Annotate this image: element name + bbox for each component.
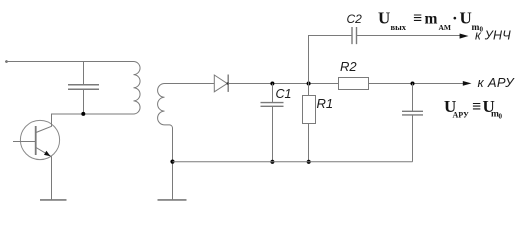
- capacitor C3 AGC top lead: [412, 84, 414, 112]
- svg-text:0: 0: [499, 113, 503, 121]
- transistor VT1 emitter lead: [36, 148, 52, 200]
- node C1 top junction: [270, 82, 274, 86]
- ground transistor emitter: [40, 199, 67, 201]
- inductor L2 secondary coil: [158, 84, 173, 200]
- formula U_vyh = m_AM * U_m0: [378, 9, 484, 34]
- capacitor C3 AGC bottom lead: [412, 115, 414, 162]
- capacitor C2 plates: [352, 27, 357, 44]
- node diode cathode: [227, 82, 229, 84]
- svg-text:к АРУ: к АРУ: [478, 75, 516, 90]
- svg-text:0: 0: [480, 26, 484, 34]
- capacitor C1 top lead: [272, 84, 274, 103]
- node R1 bottom junction: [307, 160, 311, 164]
- svg-text:m: m: [425, 11, 438, 28]
- resistor R1 top lead: [308, 84, 310, 96]
- formula U_ARU = U_m0: [444, 97, 503, 121]
- svg-text:вых: вых: [391, 22, 407, 32]
- capacitor C1 plates: [261, 103, 284, 107]
- inductor L1 primary coil: [134, 62, 141, 114]
- capacitor tank plates: [68, 85, 99, 90]
- capacitor C3 AGC plates: [402, 111, 423, 115]
- capacitor tank bottom lead: [83, 90, 85, 114]
- wire C2 to UNCh arrow: [357, 35, 461, 37]
- wire diode to R2: [228, 83, 338, 85]
- wire antenna to tank top: [6, 61, 134, 63]
- node collector junction: [81, 112, 85, 116]
- svg-text:R1: R1: [317, 96, 334, 111]
- wire tank bottom to collector: [52, 113, 134, 115]
- capacitor C1 bottom lead: [272, 107, 274, 162]
- svg-text:АРУ: АРУ: [453, 111, 469, 120]
- svg-text:C2: C2: [347, 12, 363, 26]
- node R1 top junction: [307, 82, 311, 86]
- node C1 bottom junction: [270, 160, 274, 164]
- wire base lead: [13, 141, 36, 143]
- svg-text:C1: C1: [276, 87, 292, 101]
- transistor VT1 emitter arrow: [44, 151, 51, 157]
- svg-text:U: U: [460, 9, 472, 28]
- arrow to UNCh: [460, 34, 469, 39]
- wire bottom bus: [173, 161, 413, 163]
- transistor VT1 body circle: [20, 120, 59, 159]
- node AGC capacitor junction: [411, 82, 415, 86]
- node secondary bottom junction: [170, 160, 174, 164]
- resistor R1 body: [303, 96, 316, 124]
- svg-text:m: m: [472, 23, 480, 33]
- resistor R2 body: [339, 78, 369, 90]
- diode VD1 triangle: [214, 75, 227, 92]
- transistor VT1 collector lead: [36, 114, 52, 133]
- wire secondary to diode: [165, 83, 215, 85]
- capacitor tank top lead: [83, 62, 85, 85]
- svg-text:≡: ≡: [413, 10, 422, 27]
- svg-text:≡: ≡: [472, 98, 481, 115]
- wire R1 node up to C2: [309, 36, 352, 84]
- resistor R1 bottom lead: [308, 124, 310, 162]
- wire R2 to ARU arrow: [369, 83, 464, 85]
- ground transformer secondary: [158, 199, 187, 201]
- transistor VT1 base bar: [35, 126, 37, 155]
- diode VD1 cathode bar: [227, 75, 229, 92]
- arrow to ARU: [463, 81, 472, 86]
- svg-text:U: U: [378, 9, 390, 28]
- node antenna input: [5, 60, 8, 63]
- svg-text:R2: R2: [340, 59, 357, 74]
- svg-text:·: ·: [452, 9, 458, 28]
- svg-text:АМ: АМ: [439, 23, 452, 32]
